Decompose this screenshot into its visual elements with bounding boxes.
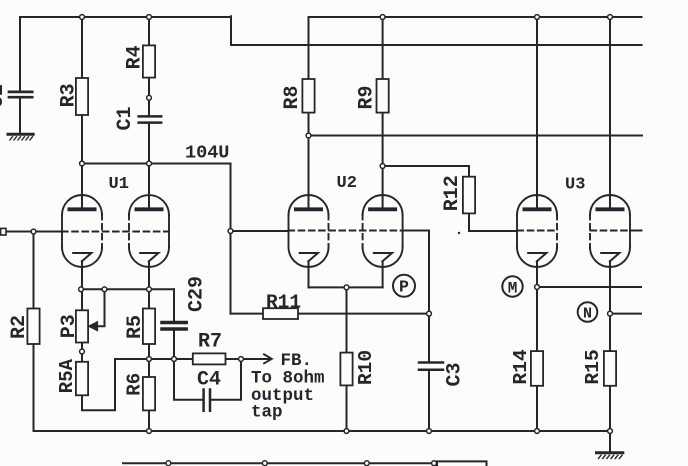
- svg-text:R9: R9: [355, 85, 378, 109]
- svg-text:R5: R5: [124, 315, 147, 339]
- svg-text:N: N: [583, 305, 592, 322]
- svg-text:M: M: [508, 279, 518, 297]
- svg-text:C29: C29: [185, 276, 208, 312]
- svg-text:R10: R10: [355, 350, 377, 385]
- svg-text:104U: 104U: [185, 143, 229, 164]
- svg-text:R12: R12: [441, 175, 464, 211]
- svg-text:R3: R3: [58, 83, 81, 107]
- svg-text:C1: C1: [114, 106, 137, 130]
- svg-text:R7: R7: [198, 330, 222, 353]
- svg-text:R2: R2: [8, 315, 31, 339]
- svg-text:P3: P3: [58, 314, 81, 338]
- svg-text:P: P: [399, 278, 409, 297]
- svg-text:R5A: R5A: [56, 358, 78, 393]
- svg-text:R14: R14: [510, 349, 532, 384]
- svg-text:tap: tap: [251, 402, 283, 422]
- svg-text:U2: U2: [337, 174, 357, 193]
- svg-text:R4: R4: [123, 45, 146, 69]
- svg-text:U1: U1: [109, 175, 129, 194]
- svg-text:R8: R8: [281, 85, 304, 109]
- svg-text:R11: R11: [266, 292, 301, 314]
- svg-text:U3: U3: [565, 176, 585, 195]
- svg-text:R6: R6: [123, 373, 145, 396]
- svg-text:C3: C3: [443, 362, 466, 386]
- svg-text:C2: C2: [0, 84, 9, 108]
- svg-text:R15: R15: [582, 349, 604, 384]
- svg-text:C4: C4: [197, 368, 221, 391]
